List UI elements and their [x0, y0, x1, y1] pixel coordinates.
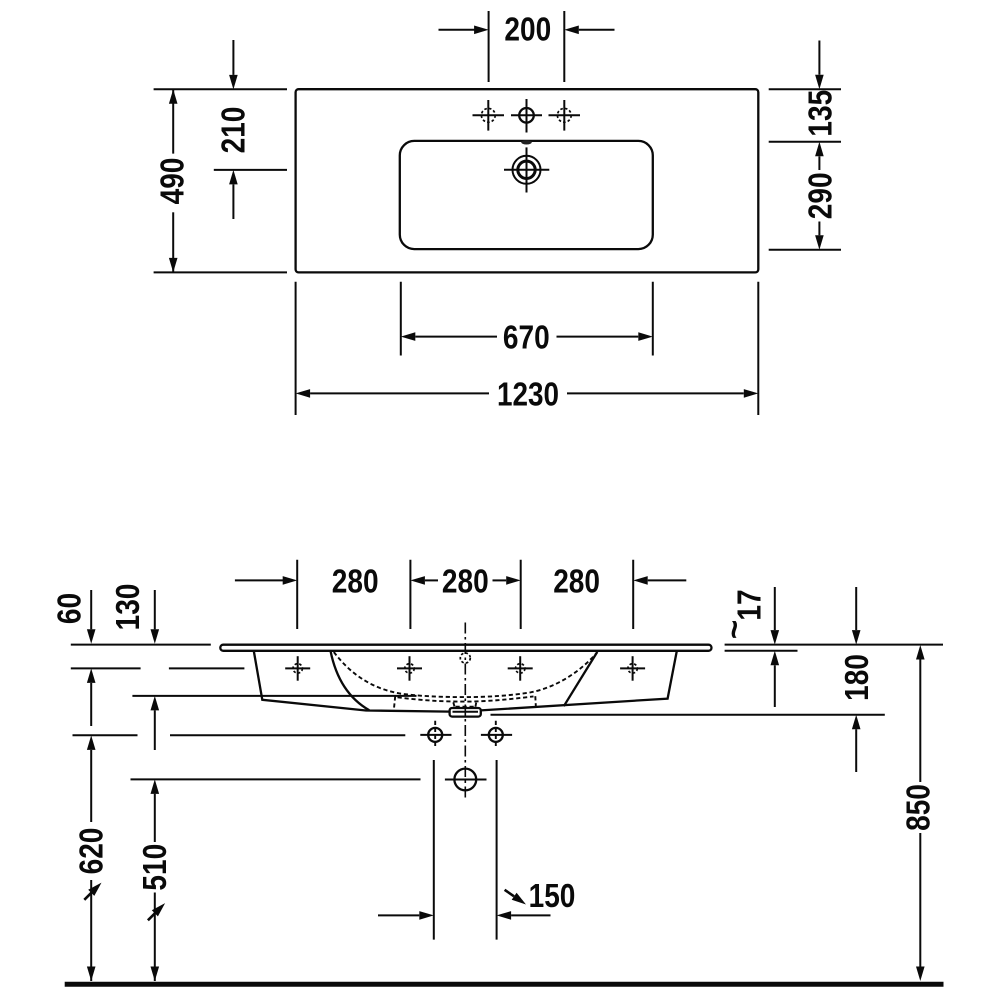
hidden sump left edge	[394, 696, 395, 710]
svg-text:130: 130	[110, 584, 147, 631]
dimension 280 (left span)	[235, 579, 283, 581]
centerline (dash-dot)	[464, 623, 466, 801]
svg-text:620: 620	[74, 828, 111, 875]
reference line: front edge underside (right)	[725, 650, 798, 652]
fixing hole cross 4	[620, 667, 645, 669]
svg-text:510: 510	[137, 844, 174, 891]
fixing hole cross 2	[397, 667, 422, 669]
basin body outline (section)	[254, 651, 677, 712]
150 reference arrow	[505, 890, 514, 897]
620 continuation arrow	[84, 888, 96, 900]
svg-text:180: 180	[839, 654, 876, 701]
dimension 210 (drain center from back edge)	[214, 169, 287, 171]
overflow slot	[521, 140, 532, 144]
svg-text:280: 280	[553, 564, 600, 601]
reference line: top surface level (left)	[71, 644, 211, 646]
faucet hole (right, optional, dashed)	[557, 108, 571, 122]
dimension 490 (overall depth)	[154, 88, 287, 90]
svg-text:~: ~	[717, 620, 754, 640]
reference line: drain trap level	[131, 778, 421, 780]
faucet hole (left, optional, dashed)	[481, 108, 495, 122]
dimension ~17 (front edge thickness)	[774, 587, 776, 630]
reference line: basin underside level (right)	[491, 714, 885, 716]
drain flange (section)	[450, 708, 481, 717]
hidden sump contour (dashed)	[398, 696, 534, 701]
dimension 280 (right span)	[633, 576, 648, 585]
dimension 670 (basin width)	[400, 282, 402, 356]
dimension 60 (top to fixing holes)	[90, 590, 92, 629]
fixing hole cross 1	[285, 667, 310, 669]
svg-text:17: 17	[732, 589, 769, 620]
basin inner bowl outline (plan view)	[400, 141, 653, 249]
left mounting bolt hole	[428, 728, 442, 742]
inner bowl left visible edge	[331, 651, 370, 710]
svg-text:60: 60	[52, 593, 89, 624]
drain outlet circle (trap)	[454, 769, 476, 791]
dimension 510 (trap above floor)	[154, 794, 156, 842]
right mounting bolt hole	[489, 728, 503, 742]
510 continuation arrow	[148, 908, 160, 920]
ceramic top slab (section)	[220, 645, 711, 651]
svg-text:1230: 1230	[497, 377, 559, 414]
fixing hole cross 3	[508, 667, 533, 669]
dimension 280 (middle span)	[410, 576, 425, 585]
hidden sump right edge	[534, 696, 537, 709]
dimension 150 (bolt hole spacing)	[433, 760, 435, 940]
reference line: top surface level (right)	[725, 644, 943, 646]
svg-text:290: 290	[802, 172, 839, 219]
reference line: fixing holes level	[71, 667, 141, 669]
inner bowl right visible edge	[564, 652, 598, 706]
dimension 850 (top surface above floor)	[919, 652, 921, 782]
svg-text:150: 150	[529, 878, 576, 915]
hidden drain recess	[453, 702, 455, 707]
dimension 1230 (overall width)	[295, 282, 297, 415]
svg-text:490: 490	[155, 158, 192, 205]
dimension 130 (top to lower edge)	[154, 590, 156, 629]
dimension 135 (basin offset from back)	[769, 88, 841, 90]
dimension 280 ticks	[296, 560, 298, 629]
dimension 290 (basin depth)	[769, 249, 841, 251]
faucet hole on centerline (hidden, dashed circle)	[460, 653, 470, 663]
countertop outline (plan view)	[296, 89, 759, 272]
svg-text:200: 200	[504, 11, 551, 48]
hidden bowl contour (dashed)	[334, 652, 597, 697]
svg-text:280: 280	[332, 564, 379, 601]
reference line: body lower edge level	[132, 695, 416, 697]
faucet hole (center, drilled)	[519, 108, 534, 123]
svg-text:210: 210	[215, 107, 252, 154]
svg-text:135: 135	[802, 90, 839, 137]
floor line	[65, 982, 944, 987]
dimension 180 (top to underside)	[855, 587, 857, 630]
svg-text:850: 850	[901, 784, 938, 831]
drain hole	[513, 156, 541, 184]
dimension 620 (bolt holes above floor)	[90, 750, 92, 822]
reference line: bolt holes level	[73, 734, 138, 736]
svg-text:280: 280	[442, 564, 489, 601]
dimension 200 (faucet hole spacing)	[488, 11, 490, 82]
svg-text:670: 670	[503, 320, 550, 357]
